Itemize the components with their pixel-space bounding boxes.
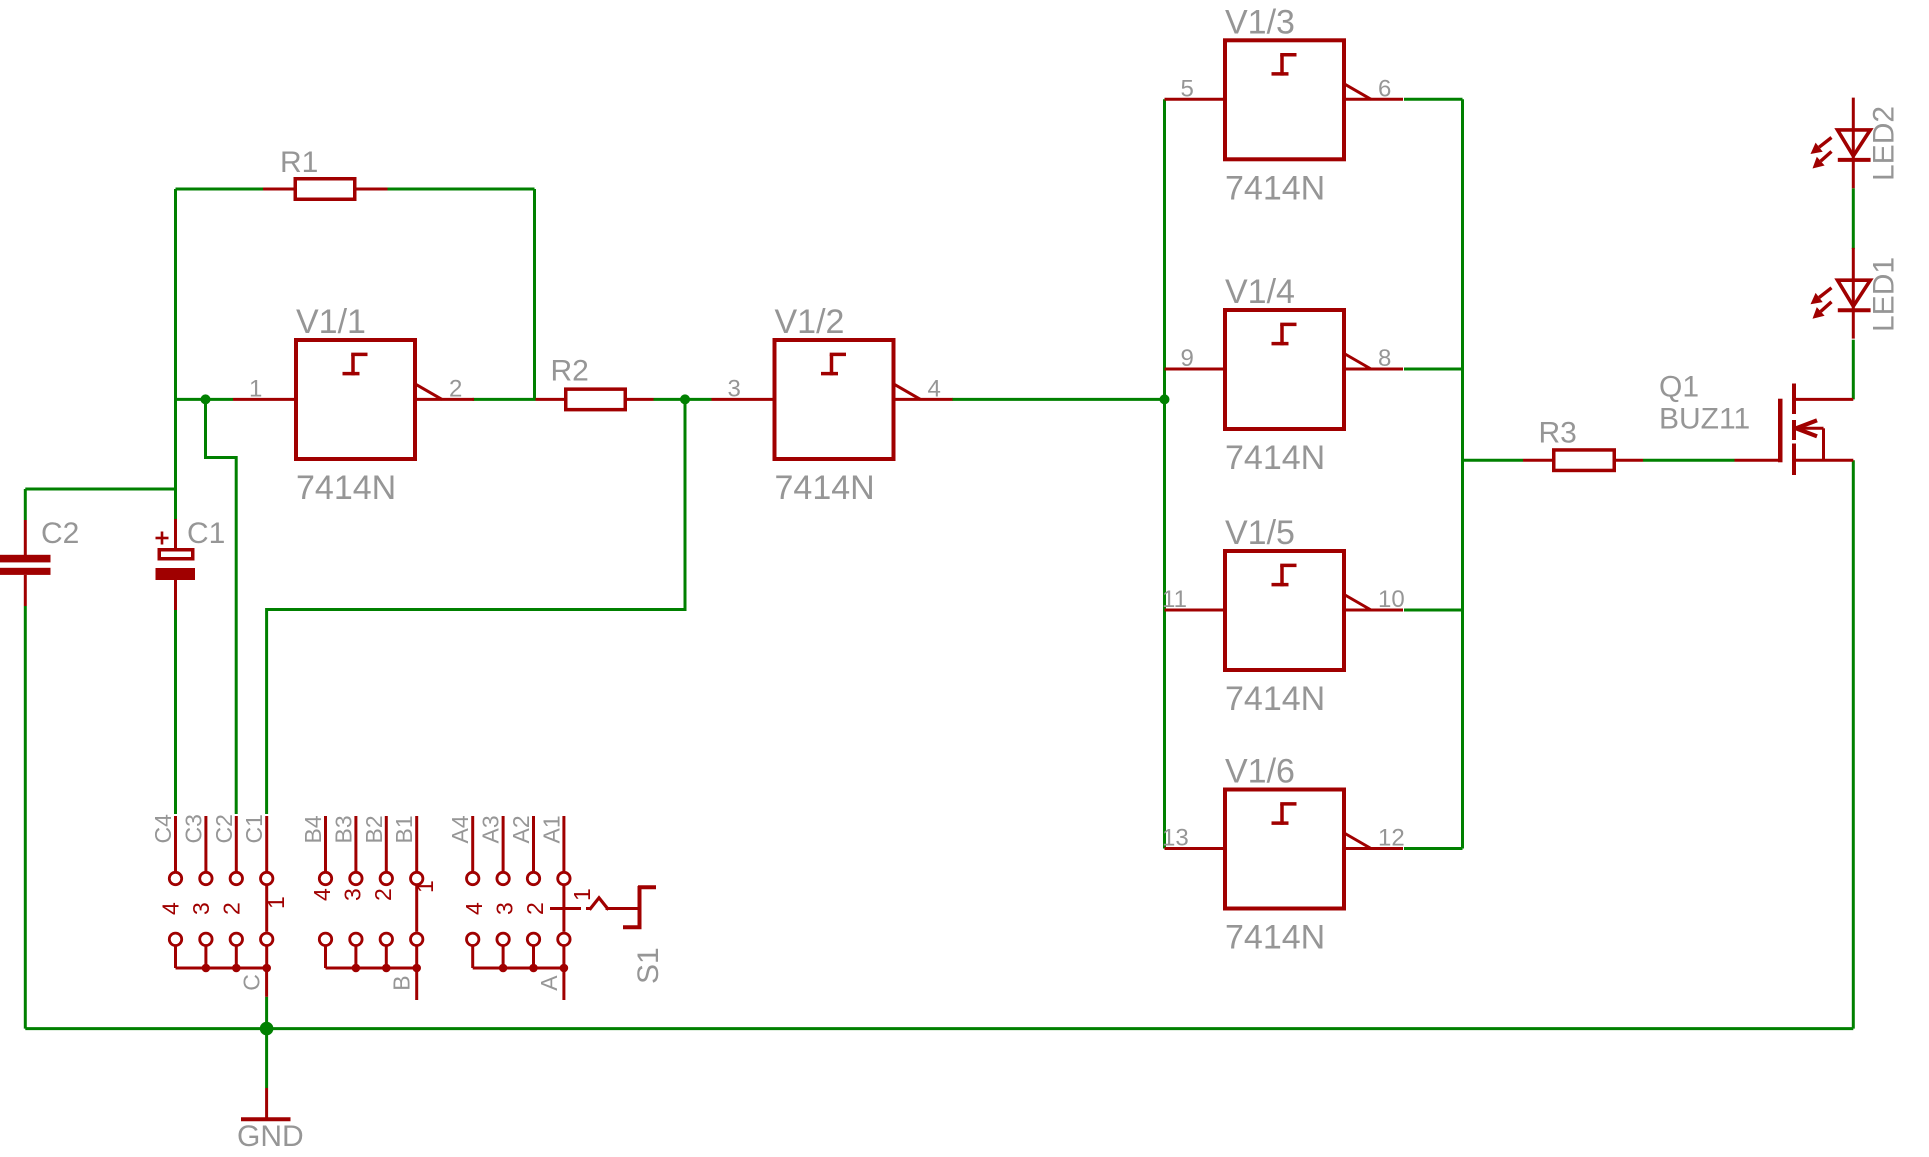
pin number 5: [1181, 75, 1194, 102]
label R3: [1539, 417, 1577, 450]
pin number 11: [1162, 586, 1187, 613]
connector group B pins: [319, 816, 423, 1000]
wire R2 to pin3: [654, 398, 712, 401]
svg-text:V1/2: V1/2: [775, 303, 845, 341]
svg-text:7414N: 7414N: [775, 469, 875, 507]
svg-text:Q1: Q1: [1659, 371, 1699, 404]
pin number 3 of group A: [492, 902, 518, 915]
pin number 12: [1378, 825, 1405, 852]
pin number 2 of group B: [370, 888, 396, 901]
svg-text:R1: R1: [280, 146, 318, 179]
label V1/6: [1225, 753, 1295, 791]
label R1: [280, 146, 318, 179]
wire R1 left horizontal: [176, 188, 264, 191]
wire pin4 to rail junction: [952, 398, 1165, 401]
svg-text:7414N: 7414N: [296, 469, 396, 507]
pin number 1 of group B: [412, 880, 438, 893]
pin number 1: [249, 375, 262, 402]
svg-text:4: 4: [928, 375, 941, 402]
svg-text:7414N: 7414N: [1225, 169, 1325, 207]
wire LED1 to drain: [1852, 340, 1855, 400]
svg-text:A2: A2: [508, 815, 534, 843]
inverter V1/5: [1165, 551, 1404, 670]
wire pin10 out: [1404, 609, 1463, 612]
svg-text:B2: B2: [361, 815, 387, 843]
svg-text:C3: C3: [180, 814, 206, 843]
connector group C pins: [169, 816, 273, 997]
pin number 3: [728, 375, 741, 402]
svg-text:11: 11: [1162, 586, 1187, 613]
svg-text:8: 8: [1378, 345, 1391, 372]
pin number 4 of group B: [309, 888, 335, 901]
net label B: [389, 975, 415, 990]
inverter V1/2: [712, 340, 953, 459]
svg-text:2: 2: [218, 902, 244, 915]
capacitor C1 polarized: [156, 519, 196, 610]
svg-text:2: 2: [522, 902, 548, 915]
svg-text:V1/5: V1/5: [1225, 514, 1295, 552]
label 7414N of V1/4: [1225, 439, 1325, 477]
svg-text:5: 5: [1181, 75, 1194, 102]
wire gnd drop: [265, 997, 268, 1088]
wire R3 to gate: [1643, 459, 1735, 462]
label R2: [551, 355, 589, 388]
pin number 2 of group C: [218, 902, 244, 915]
svg-text:R3: R3: [1539, 417, 1577, 450]
label C2: [41, 517, 79, 550]
svg-text:2: 2: [370, 888, 396, 901]
label C1: [187, 517, 225, 550]
svg-text:C1: C1: [187, 517, 225, 550]
wire left rail of inverter bank: [1163, 99, 1166, 848]
svg-text:V1/1: V1/1: [296, 303, 366, 341]
svg-text:7414N: 7414N: [1225, 439, 1325, 477]
wire ground rail: [25, 1027, 1853, 1030]
pin label C2: [211, 814, 237, 843]
label 7414N of V1/5: [1225, 680, 1325, 718]
pin label C4: [150, 814, 176, 844]
label LED2: [1868, 106, 1901, 181]
pin label C3: [180, 814, 206, 843]
pin number 1 of group C: [263, 896, 289, 909]
wire right rail of inverter bank: [1461, 99, 1464, 848]
wire C2 bottom vertical: [24, 606, 27, 1029]
svg-text:3: 3: [339, 888, 365, 901]
svg-text:12: 12: [1378, 825, 1405, 852]
label GND: [237, 1120, 304, 1153]
net label C: [239, 974, 265, 991]
label V1/3: [1225, 3, 1295, 41]
label V1/4: [1225, 273, 1295, 311]
pin number 3 of group C: [188, 902, 214, 915]
svg-text:3: 3: [188, 902, 214, 915]
svg-text:4: 4: [309, 888, 335, 901]
label 7414N of V1/1: [296, 469, 396, 507]
label V1/2: [775, 303, 845, 341]
pin number 2: [449, 375, 462, 402]
wire C1 cap bottom to C4 column: [174, 610, 177, 814]
label Q1: [1659, 371, 1699, 404]
wire R1 right horizontal: [388, 188, 535, 191]
pin label A1: [538, 815, 564, 843]
svg-text:V1/4: V1/4: [1225, 273, 1295, 311]
svg-text:B3: B3: [330, 815, 356, 843]
svg-text:R2: R2: [551, 355, 589, 388]
diode LED2: [1811, 98, 1871, 189]
label V1/5: [1225, 514, 1295, 552]
pin number 3 of group B: [339, 888, 365, 901]
net label A: [536, 975, 562, 991]
switch S1: [550, 886, 656, 929]
pin number 4 of group C: [158, 902, 184, 915]
svg-text:BUZ11: BUZ11: [1659, 403, 1750, 436]
wire pin2 to R2: [473, 398, 536, 401]
svg-text:B4: B4: [300, 815, 326, 843]
pin number 1 of group A: [569, 888, 595, 901]
svg-text:1: 1: [412, 880, 438, 893]
pin number 13: [1162, 825, 1189, 852]
svg-text:7414N: 7414N: [1225, 680, 1325, 718]
label 7414N of V1/6: [1225, 919, 1325, 957]
svg-text:7414N: 7414N: [1225, 919, 1325, 957]
svg-text:10: 10: [1378, 586, 1405, 613]
svg-text:C4: C4: [150, 814, 176, 844]
pin label B2: [361, 815, 387, 843]
wire node pin1: [176, 398, 234, 401]
label LED1: [1868, 257, 1901, 332]
wire R1 feedback vertical: [533, 189, 536, 399]
svg-text:1: 1: [569, 888, 595, 901]
svg-text:LED2: LED2: [1868, 106, 1901, 181]
svg-text:13: 13: [1162, 825, 1189, 852]
pin label A3: [478, 815, 504, 843]
ground symbol: [241, 1088, 291, 1119]
pin label A2: [508, 815, 534, 843]
label 7414N of V1/3: [1225, 169, 1325, 207]
resistor R1: [263, 179, 388, 200]
svg-text:GND: GND: [237, 1120, 304, 1153]
svg-text:A: A: [536, 975, 562, 991]
svg-text:B: B: [389, 975, 415, 990]
label V1/1: [296, 303, 366, 341]
capacitor C2: [0, 520, 51, 606]
inverter V1/1: [233, 340, 474, 459]
diode LED1: [1811, 248, 1871, 339]
wire source to ground rail: [1852, 460, 1855, 1028]
wire jog node1 to C2 column: [206, 399, 237, 814]
svg-text:C2: C2: [211, 814, 237, 843]
svg-text:9: 9: [1181, 345, 1194, 372]
svg-text:1: 1: [263, 896, 289, 909]
junction ground node: [260, 1022, 274, 1036]
svg-text:6: 6: [1378, 75, 1391, 102]
junction node 3: [1160, 394, 1170, 404]
svg-text:A3: A3: [478, 815, 504, 843]
pin number 8: [1378, 345, 1391, 372]
pin number 10: [1378, 586, 1405, 613]
pin number 4 of group A: [461, 902, 487, 915]
svg-text:V1/3: V1/3: [1225, 3, 1295, 41]
inverter V1/4: [1165, 310, 1404, 429]
pin number 6: [1378, 75, 1391, 102]
wire left vertical R1-to-C1: [174, 189, 177, 519]
svg-text:C: C: [239, 974, 265, 991]
svg-text:LED1: LED1: [1868, 257, 1901, 332]
inverter V1/3: [1165, 40, 1404, 159]
resistor R3: [1523, 450, 1643, 471]
svg-text:4: 4: [158, 902, 184, 915]
svg-text:C1: C1: [241, 814, 267, 843]
svg-text:A1: A1: [538, 815, 564, 843]
pin number 2 of group A: [522, 902, 548, 915]
svg-text:S1: S1: [632, 947, 665, 984]
svg-text:V1/6: V1/6: [1225, 753, 1295, 791]
wire C2 top horizontal: [25, 488, 175, 491]
wire node3 down-left to C1 column: [267, 399, 685, 814]
pin label B1: [391, 815, 417, 843]
wire rail to R3: [1463, 459, 1524, 462]
wire pin8 out: [1404, 368, 1463, 371]
svg-text:B1: B1: [391, 815, 417, 843]
transistor Q1 BUZ11: [1735, 384, 1854, 476]
wire LED2 to LED1: [1852, 188, 1855, 249]
svg-text:3: 3: [492, 902, 518, 915]
pin number 9: [1181, 345, 1194, 372]
inverter V1/6: [1165, 790, 1404, 909]
pin label A4: [447, 815, 473, 843]
svg-text:A4: A4: [447, 815, 473, 843]
junction node 1: [201, 394, 211, 404]
svg-text:2: 2: [449, 375, 462, 402]
wire pin6 out: [1404, 98, 1463, 101]
svg-text:4: 4: [461, 902, 487, 915]
label 7414N of V1/2: [775, 469, 875, 507]
svg-text:C2: C2: [41, 517, 79, 550]
pin label B3: [330, 815, 356, 843]
pin label B4: [300, 815, 326, 843]
wire pin12 out: [1404, 847, 1463, 850]
pin label C1: [241, 814, 267, 843]
junction node 2: [680, 394, 690, 404]
resistor R2: [536, 389, 654, 410]
svg-text:1: 1: [249, 375, 262, 402]
wire C2 top lead: [24, 489, 27, 520]
label BUZ11: [1659, 403, 1750, 436]
label S1: [632, 947, 665, 984]
connector group A pins: [467, 816, 571, 1000]
pin number 4: [928, 375, 941, 402]
plus sign of C1: [156, 532, 169, 545]
svg-text:3: 3: [728, 375, 741, 402]
